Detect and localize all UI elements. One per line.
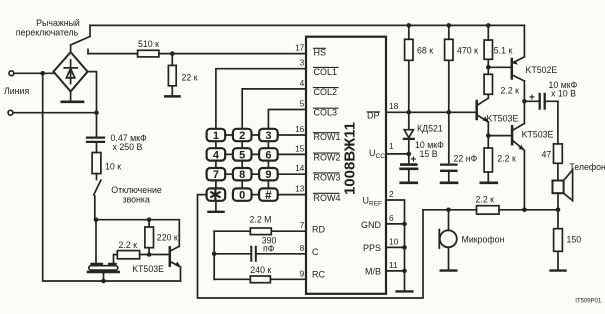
node rail 5.1k — [486, 23, 491, 28]
speaker Телефон — [553, 181, 564, 194]
resistor 5.1 к — [487, 25, 489, 74]
wire upper line — [14, 72, 54, 74]
svg-text:+: + — [529, 93, 535, 104]
svg-text:47: 47 — [542, 150, 552, 160]
svg-text:Микрофон: Микрофон — [462, 235, 505, 245]
svg-text:2: 2 — [389, 189, 394, 199]
node emitter rail — [522, 208, 527, 213]
resistor 2.2 к lower — [484, 148, 492, 172]
svg-text:пФ: пФ — [263, 243, 275, 253]
svg-text:2.2 М: 2.2 М — [250, 215, 272, 225]
svg-text:PPS: PPS — [363, 243, 381, 253]
label hook switch "Рычажный переключатель" — [16, 18, 80, 38]
svg-text:RD: RD — [312, 225, 325, 235]
svg-text:16: 16 — [295, 124, 305, 134]
svg-text:KT502E: KT502E — [526, 65, 558, 75]
resistor 2.2 к upper — [484, 74, 492, 94]
svg-text:5: 5 — [239, 149, 245, 161]
wire COL1 to pin 3 — [216, 69, 306, 129]
svg-text:470 к: 470 к — [457, 45, 478, 55]
piezo sounder — [92, 263, 116, 265]
svg-text:15 В: 15 В — [420, 149, 438, 159]
resistor 47 — [557, 101, 559, 180]
transistor KT502E — [511, 59, 514, 79]
resistor 240 к — [214, 278, 306, 280]
pin labels left — [312, 48, 341, 280]
transistor KT503E lower right — [511, 126, 514, 144]
svg-text:IT509P01: IT509P01 — [575, 298, 602, 304]
transistor KT503E ringer — [169, 247, 172, 265]
svg-text:C: C — [312, 247, 319, 257]
resistor 2.2 М — [214, 230, 306, 232]
switch ringer disable — [94, 174, 101, 220]
svg-text:Телефон: Телефон — [569, 162, 605, 172]
node speaker rail — [556, 208, 561, 213]
wire star key to bottom rail to mic rail — [198, 195, 424, 298]
svg-text:звонка: звонка — [123, 194, 150, 204]
svg-text:REF: REF — [369, 201, 382, 208]
svg-text:КД521: КД521 — [417, 124, 443, 134]
ground mic — [441, 269, 457, 271]
svg-text:10 к: 10 к — [105, 162, 121, 172]
svg-text:CC: CC — [376, 153, 386, 160]
microphone Микрофон — [448, 210, 450, 231]
svg-text:18: 18 — [389, 101, 399, 111]
node 220k top — [147, 217, 152, 222]
resistor 510 к — [138, 50, 159, 57]
diode bridge VD1 — [54, 52, 88, 91]
svg-text:4: 4 — [300, 78, 305, 88]
node lower line / bridge — [94, 110, 99, 115]
resistor 10 к — [92, 153, 101, 174]
diode КД521 — [408, 112, 410, 154]
svg-text:6: 6 — [265, 149, 271, 161]
node rail 470k — [447, 23, 452, 28]
ground 150 — [551, 269, 566, 271]
svg-text:4: 4 — [213, 149, 220, 161]
svg-text:14: 14 — [295, 163, 305, 173]
svg-text:17: 17 — [295, 43, 305, 53]
svg-text:KT503E: KT503E — [132, 264, 164, 274]
pin label overlines — [314, 48, 340, 193]
svg-text:#: # — [265, 188, 272, 202]
node base 220k — [147, 252, 152, 257]
wire piezo left electrode — [95, 220, 97, 264]
svg-text:1: 1 — [213, 130, 219, 142]
svg-text:х 10 В: х 10 В — [551, 89, 576, 99]
wire base KT502E — [488, 66, 512, 68]
node PPS — [402, 245, 407, 250]
op IC U1 1008ВЖ11 — [306, 37, 386, 294]
svg-text:U: U — [369, 148, 376, 158]
wire Ucc pin 1 — [386, 153, 409, 155]
svg-text:5: 5 — [300, 99, 305, 109]
svg-text:0: 0 — [239, 190, 245, 202]
svg-text:150: 150 — [567, 235, 582, 245]
svg-text:Линия: Линия — [4, 86, 29, 96]
svg-text:2: 2 — [239, 130, 245, 142]
node ringer switch — [94, 217, 99, 222]
node junction 510k/22k — [170, 51, 175, 56]
svg-text:RC: RC — [312, 269, 325, 279]
svg-text:KT503E: KT503E — [487, 113, 519, 123]
svg-text:2.2 к: 2.2 к — [497, 153, 516, 163]
svg-text:7: 7 — [300, 220, 305, 230]
svg-text:+: + — [411, 154, 417, 165]
svg-text:2.2 к: 2.2 к — [501, 85, 520, 95]
svg-text:220 к: 220 к — [157, 233, 178, 243]
hook switch S1 — [71, 25, 90, 53]
pin labels right — [361, 110, 382, 276]
svg-text:HS: HS — [314, 48, 327, 58]
svg-text:510 к: 510 к — [138, 39, 159, 49]
svg-text:переключатель: переключатель — [16, 28, 79, 38]
resistor 2.2 к ringer — [114, 255, 170, 264]
svg-text:COL1: COL1 — [314, 67, 338, 77]
svg-text:3: 3 — [265, 130, 271, 142]
svg-text:ROW4: ROW4 — [314, 193, 341, 203]
wire keypad column links — [216, 141, 269, 188]
terminal line lower — [8, 110, 13, 115]
svg-text:5.1 к: 5.1 к — [494, 45, 513, 55]
node oscillator — [212, 252, 217, 257]
ground 2.2k — [481, 182, 497, 185]
node DP/470k — [447, 110, 452, 115]
svg-text:ROW1: ROW1 — [314, 132, 341, 142]
ground 22nF — [441, 182, 457, 185]
wire Uref/GND/PPS/M/B bus — [386, 200, 405, 291]
svg-text:COL3: COL3 — [314, 108, 338, 118]
pin numbers right — [389, 101, 399, 270]
wire ROW4 to pin 13 — [278, 194, 306, 196]
svg-text:11: 11 — [389, 260, 398, 270]
svg-text:ROW3: ROW3 — [314, 172, 341, 182]
svg-text:3: 3 — [300, 58, 305, 68]
wire top supply rail — [90, 24, 524, 26]
ground bridge — [70, 92, 72, 102]
svg-text:ROW2: ROW2 — [314, 153, 341, 163]
svg-text:240 к: 240 к — [250, 265, 271, 275]
keypad keys 1 2 3 / 4 5 6 / 7 8 9 / * 0 # — [207, 129, 278, 201]
node piezo ground — [101, 279, 106, 284]
resistor 470 к — [448, 25, 450, 163]
svg-text:KT503E: KT503E — [522, 129, 554, 139]
svg-text:8: 8 — [300, 243, 305, 253]
node GND — [402, 222, 407, 227]
node upper line tap — [40, 71, 45, 76]
wire ROW2 to pin 15 — [278, 153, 306, 155]
wire HS line (switch to IC pin 17) — [88, 53, 306, 55]
resistor 150 — [557, 210, 559, 270]
svg-text:COL2: COL2 — [314, 87, 338, 97]
wire COL3 to pin 5 — [268, 110, 306, 129]
capacitor 22 нФ — [441, 165, 456, 171]
wire left drop to ringer rail — [43, 73, 181, 281]
wire oscillator left bus — [213, 231, 215, 279]
resistor 220 к — [148, 220, 150, 255]
wire ringer top rail — [95, 220, 180, 247]
wire ROW3 to pin 14 — [278, 173, 306, 175]
node 5.1k/base — [486, 65, 491, 70]
svg-text:22 нФ: 22 нФ — [454, 153, 478, 163]
resistor 22 к — [171, 54, 173, 96]
node emitter/base — [486, 133, 491, 138]
svg-text:1: 1 — [389, 141, 394, 151]
svg-text:8: 8 — [239, 169, 245, 181]
svg-text:22 к: 22 к — [182, 73, 198, 83]
resistor 68 к — [408, 25, 410, 112]
svg-text:M/B: M/B — [365, 267, 381, 277]
svg-text:15: 15 — [295, 143, 305, 153]
svg-text:х 250 В: х 250 В — [113, 142, 143, 152]
wire base KT503E lower — [488, 135, 512, 137]
svg-text:13: 13 — [295, 184, 305, 194]
node collector/cap — [522, 99, 527, 104]
wire keypad row links — [225, 135, 259, 195]
transistor KT503E middle — [475, 101, 478, 119]
capacitor 10 мкФ 15 В electrolytic — [408, 154, 410, 163]
svg-text:68 к: 68 к — [417, 45, 433, 55]
wire lower line — [13, 112, 97, 114]
pin numbers left — [295, 43, 305, 279]
svg-text:7: 7 — [213, 169, 219, 181]
node rail 68k — [407, 23, 412, 28]
capacitor 10 мкФ x 10 В — [524, 100, 558, 102]
ground 22k — [165, 95, 179, 98]
capacitor 390 пФ — [214, 253, 306, 255]
wire bridge right to lower line — [88, 72, 97, 113]
wire DP pin 18 to KT503E base — [386, 111, 477, 113]
wire ROW1 to pin 16 — [278, 134, 306, 136]
terminal line upper — [9, 71, 14, 76]
wire COL2 to pin 4 — [242, 89, 306, 129]
svg-text:9: 9 — [265, 169, 271, 181]
svg-text:1008ВЖ11: 1008ВЖ11 — [342, 122, 359, 195]
svg-text:2.2 к: 2.2 к — [476, 194, 495, 204]
resistor 2.2 к mic — [477, 206, 500, 214]
svg-text:9: 9 — [300, 268, 305, 278]
node DP/68k — [407, 110, 412, 115]
node Ucc — [407, 152, 412, 157]
ground Uref bus — [397, 290, 413, 292]
capacitor 0.47 мкФ x 250 В — [96, 113, 98, 153]
svg-text:GND: GND — [361, 220, 382, 230]
svg-text:10: 10 — [389, 236, 399, 246]
ground electrolytic — [401, 182, 417, 185]
ground keypad star column — [215, 201, 217, 211]
svg-text:6: 6 — [389, 213, 394, 223]
svg-text:Рычажный: Рычажный — [36, 18, 80, 28]
node mic — [446, 208, 451, 213]
svg-text:2.2 к: 2.2 к — [119, 240, 138, 250]
node M/B — [402, 269, 407, 274]
wire mic rail — [423, 209, 558, 211]
